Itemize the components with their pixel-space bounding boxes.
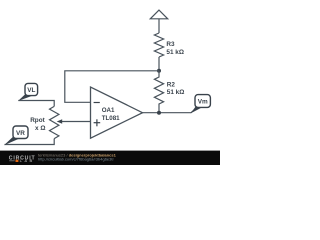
svg-text:51 kΩ: 51 kΩ bbox=[167, 89, 185, 96]
power supply V+ bbox=[150, 10, 167, 19]
node output junction bbox=[157, 111, 161, 115]
wiper arrow bbox=[60, 121, 91, 123]
potentiometer Rpot bbox=[50, 106, 59, 138]
svg-text:TL081: TL081 bbox=[102, 115, 120, 122]
svg-text:OA1: OA1 bbox=[102, 107, 115, 114]
svg-text:Rpot: Rpot bbox=[30, 117, 45, 124]
resistor R3 bbox=[154, 33, 163, 57]
svg-text:VR: VR bbox=[16, 130, 25, 137]
wire bbox=[158, 57, 160, 71]
node junction R3/R2/feedback bbox=[157, 69, 161, 73]
wire potentiometer bottom to VR bbox=[5, 139, 55, 145]
svg-text:R3: R3 bbox=[166, 41, 175, 48]
flag Vm bbox=[191, 106, 202, 113]
plus sign bbox=[94, 122, 101, 124]
flag VR bbox=[4, 137, 19, 146]
op-amp OA1 bbox=[91, 87, 143, 138]
resistor R2 bbox=[154, 71, 163, 113]
minus sign bbox=[94, 102, 100, 104]
svg-text:R2: R2 bbox=[167, 82, 176, 89]
svg-text:VL: VL bbox=[27, 87, 35, 94]
svg-text:LAB: LAB bbox=[20, 159, 35, 163]
wire feedback from junction to inverting input bbox=[65, 71, 159, 103]
svg-text:http.//circuitlab.com/c/7f6bag: http.//circuitlab.com/c/7f6bag6a/r3b4g6e… bbox=[38, 156, 114, 161]
svg-text:Vm: Vm bbox=[198, 99, 208, 106]
svg-text:x Ω: x Ω bbox=[35, 125, 45, 132]
footer banner bbox=[0, 151, 220, 165]
wire bbox=[158, 19, 160, 33]
svg-text:51 kΩ: 51 kΩ bbox=[166, 49, 184, 56]
wire op-amp output to Vm bbox=[143, 108, 197, 113]
flag VL bbox=[18, 94, 32, 101]
wire VL to potentiometer top bbox=[18, 101, 54, 107]
